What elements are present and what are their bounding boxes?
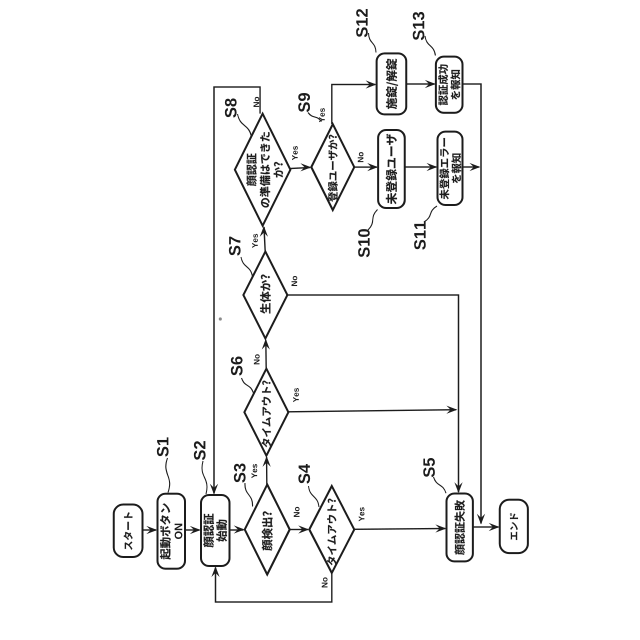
node label S6	[231, 357, 243, 376]
wire S4 Yes to S5	[354, 528, 445, 531]
label No	[254, 354, 260, 364]
label Yes	[251, 464, 257, 478]
decision S7	[243, 252, 287, 339]
label Yes	[293, 388, 299, 402]
terminal start	[114, 505, 143, 558]
wire S3 No to S4	[290, 529, 308, 531]
decision S3	[245, 485, 290, 575]
decision S9	[311, 124, 354, 210]
label ON	[175, 524, 183, 539]
wire S3 Yes to S6	[266, 457, 268, 485]
process S10	[378, 130, 405, 208]
label No	[253, 97, 259, 107]
label No	[294, 507, 300, 517]
wire S2 to S3	[230, 529, 244, 531]
process S1	[158, 494, 186, 569]
label Yes	[359, 507, 365, 521]
decision S6	[244, 369, 288, 456]
label Yes	[319, 108, 325, 122]
process S2	[201, 495, 230, 566]
wire S13 out to end line	[463, 84, 482, 524]
node label S5	[423, 458, 435, 477]
node label S11	[414, 221, 426, 249]
label No	[291, 276, 297, 286]
wire S10 to S11	[405, 166, 437, 168]
label No	[322, 577, 328, 587]
node label S12	[356, 9, 368, 37]
node label S9	[298, 93, 310, 112]
label Yes	[292, 146, 298, 160]
wire S6 No to S7	[265, 340, 267, 369]
node label S7	[229, 237, 241, 256]
decision S8	[235, 114, 291, 226]
wire S4 No loop back to S2	[216, 568, 332, 603]
terminal end	[500, 500, 528, 553]
wire S7 Yes to S8	[264, 227, 265, 252]
label Yes	[252, 234, 258, 248]
wire S6 Yes down to junction	[288, 410, 456, 412]
wire S9 No to S10	[354, 166, 377, 168]
process S11	[438, 132, 463, 205]
wire S11 out to merge	[463, 166, 480, 168]
node label S1	[157, 437, 169, 456]
process S13	[436, 57, 463, 113]
node label S10	[358, 229, 370, 257]
wire S8 No loop to S2	[214, 87, 260, 494]
wire S5 to end	[473, 526, 499, 528]
process S12	[377, 53, 407, 114]
wire start to S1	[143, 529, 157, 531]
wire S7 No down and left to S5	[287, 295, 458, 492]
node label S13	[413, 12, 425, 40]
label No	[358, 152, 364, 162]
wire S12 to S13	[406, 83, 434, 85]
wire S9 Yes to S12	[332, 85, 376, 125]
stray dot artifact	[219, 317, 222, 320]
node label S3	[234, 464, 246, 483]
process S5	[447, 494, 473, 562]
wire S8 Yes to S9	[290, 168, 310, 169]
node label S8	[225, 98, 237, 117]
node label S2	[194, 441, 206, 460]
node label S4	[298, 464, 310, 484]
decision S4	[309, 486, 354, 573]
wire S1 to S2	[185, 529, 200, 531]
